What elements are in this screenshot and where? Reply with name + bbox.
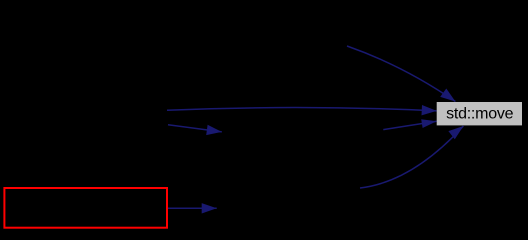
edge c: mid-left caller to middle hidden node — [168, 125, 222, 132]
arrowhead e — [202, 203, 217, 213]
edge b: mid-left caller to std::move (long horizontal spline) — [167, 108, 437, 111]
arrowhead a — [440, 89, 455, 102]
edge e: red node to bottom hidden node — [168, 207, 217, 209]
edge a: top caller to std::move — [347, 46, 455, 102]
node: current function (red outlined box, bottom-left) — [4, 188, 167, 228]
edge f: bottom hidden node curving up to std::move — [360, 126, 463, 188]
node: std::move (grey box) — [437, 102, 522, 125]
arrowhead f — [448, 126, 463, 139]
edge d: middle hidden node to std::move — [383, 121, 436, 129]
arrowhead b — [422, 105, 437, 115]
svg-text:std::move: std::move — [446, 106, 513, 123]
arrowhead c — [206, 125, 222, 135]
arrowhead d — [421, 119, 437, 128]
